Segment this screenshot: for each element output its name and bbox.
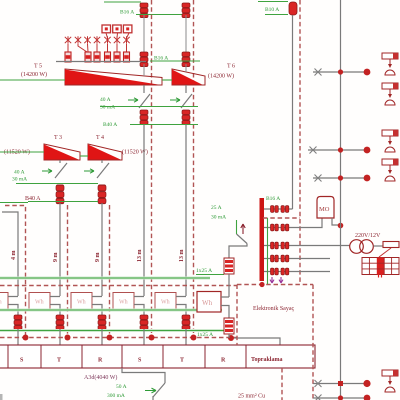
fuse B40 col3: [140, 110, 148, 125]
wire lamp1 drop: [67, 44, 69, 52]
wire column3 run: [143, 125, 145, 297]
wire dashed column0 jog: [5, 206, 26, 337]
wire lamp3 drop: [87, 44, 90, 52]
fuse branch1 pair: [271, 206, 279, 213]
svg-text:50 A: 50 A: [116, 384, 127, 390]
wire box2 stem: [116, 33, 119, 38]
svg-text:Wh: Wh: [202, 299, 213, 307]
wire lamp4 drop: [96, 44, 98, 52]
node neutral k4: [191, 335, 197, 341]
svg-text:T 5: T 5: [34, 64, 42, 70]
fuse column0 lower: [14, 315, 22, 330]
fuse column4 mid: [182, 52, 190, 67]
wire green meter link upper: [196, 274, 224, 276]
fuse branch5 pair: [271, 268, 279, 275]
fuse branch4 pair: [271, 255, 279, 262]
svg-text:1x25 A: 1x25 A: [196, 268, 212, 274]
fuse column2 lower: [98, 315, 106, 330]
fuse sorti 5: [114, 52, 120, 62]
wire dashed horizontal boundary: [0, 285, 237, 287]
wire green feed T3: [0, 151, 44, 153]
wire whbox k4 links: [176, 297, 186, 316]
busbar wedge T3 fill: [44, 145, 79, 160]
switch RCD col4 blade: [170, 85, 192, 108]
switch mark branch y383: [315, 380, 322, 387]
wire ground run: [234, 338, 280, 345]
svg-text:9 m: 9 m: [95, 253, 101, 263]
wire green row2 fuse top bus: [16, 183, 98, 185]
svg-text:B16 A: B16 A: [266, 196, 280, 202]
busbar wedge T6 outline: [172, 69, 205, 85]
transformer primary circle: [350, 240, 364, 254]
wire meter link down: [229, 244, 247, 259]
fuse B16A column4 top: [182, 3, 190, 18]
wire main feeder jog: [122, 368, 165, 383]
svg-text:Topraklama: Topraklama: [251, 357, 282, 363]
node branch y150 end: [364, 147, 371, 154]
svg-text:30 mA: 30 mA: [211, 215, 226, 221]
load group E: [382, 370, 398, 392]
node branch y383 mid: [338, 381, 343, 386]
lamp 6: [114, 36, 120, 44]
svg-text:4 m: 4 m: [11, 251, 17, 261]
wire dashed column1: [67, 205, 69, 336]
lamp 7: [123, 36, 129, 44]
node neutral k1: [65, 335, 71, 341]
fuse B40 col1: [56, 185, 64, 204]
load group B: [382, 83, 398, 105]
wire green feeder right top: [258, 1, 288, 3]
wire dashed branch neutral: [263, 217, 300, 219]
load group A: [382, 53, 398, 75]
wire branch3 to transformer: [264, 245, 350, 247]
wire branch2: [264, 218, 322, 228]
svg-text:13 m: 13 m: [137, 250, 143, 263]
wire dashed companion column3: [151, 0, 153, 292]
wire green feed T5: [0, 79, 65, 81]
component secondary fuse: [383, 242, 399, 248]
switch RCD col2 blade: [84, 160, 109, 178]
node branch y72 end: [364, 69, 371, 76]
wire box3 stem: [127, 33, 130, 38]
svg-text:40 A: 40 A: [100, 97, 111, 103]
wire right main vertical: [340, 0, 342, 400]
svg-text:40 A: 40 A: [14, 170, 25, 176]
wire green distribution bus upper: [0, 277, 210, 279]
switch mark branch y178: [315, 175, 322, 182]
wire dashed column3 lower: [151, 292, 153, 336]
wire dashed column4 lower: [193, 292, 195, 336]
svg-text:(14200 W): (14200 W): [21, 71, 47, 78]
page edge artifact: [0, 394, 3, 400]
arrow phase down a: [270, 277, 274, 283]
lamp 4: [94, 36, 100, 44]
wire branch y72: [313, 71, 367, 73]
wire green bus lower halo: [0, 329, 226, 332]
fuse meter upper: [224, 258, 234, 274]
wire secondary out: [374, 245, 384, 247]
wire green link T3-T4: [80, 155, 88, 157]
fuse B40 col4: [182, 110, 190, 125]
arrow phase down b: [279, 277, 283, 283]
wire wedge2 stub col4: [185, 64, 187, 72]
wire lamp5 drop: [107, 44, 109, 52]
junction box 1: [102, 25, 111, 33]
node MO junction: [338, 223, 344, 229]
wire column1 run: [59, 203, 61, 296]
node branch y178 mid: [338, 175, 343, 180]
load group C: [382, 130, 398, 152]
busbar wedge T5 outline: [65, 69, 162, 85]
svg-text:MO: MO: [319, 206, 330, 213]
wire lamp busbar: [56, 61, 146, 63]
svg-text:B40 A: B40 A: [103, 122, 117, 128]
load group D: [382, 159, 398, 181]
wire lamp6 drop: [116, 44, 118, 52]
svg-text:Elektronik Sayaç: Elektronik Sayaç: [253, 306, 294, 312]
wire branch y383: [313, 383, 367, 385]
wire column4 run: [185, 125, 187, 297]
wire wedge1 stub col3: [143, 64, 145, 76]
svg-text:30 mA: 30 mA: [12, 177, 27, 183]
svg-text:B10 A: B10 A: [265, 7, 279, 13]
svg-text:A3d(4040 W): A3d(4040 W): [84, 374, 117, 381]
wire cable column3 upper: [143, 15, 145, 52]
wire whbox k0 links: [8, 297, 18, 316]
meter box Wh k1: [29, 293, 50, 310]
node meter top edge: [259, 282, 264, 287]
svg-text:T: T: [180, 358, 184, 364]
svg-text:T 4: T 4: [96, 135, 104, 141]
wire branch1: [264, 208, 293, 210]
switch mark branch y72: [315, 69, 322, 76]
svg-text:25 A: 25 A: [211, 205, 222, 211]
svg-text:13 m: 13 m: [179, 250, 185, 263]
wire green top bus 2: [136, 14, 182, 16]
busbar main vertical: [260, 198, 265, 281]
fuse sorti 2: [85, 52, 91, 62]
svg-text:25 mm² Cu: 25 mm² Cu: [238, 394, 265, 400]
wire green busbar neutral: [267, 218, 269, 284]
svg-text:9 m: 9 m: [53, 253, 59, 263]
fuse sorti 3: [94, 52, 100, 62]
wire green feeder right bus 2: [265, 14, 288, 16]
wire branch y178: [313, 177, 367, 179]
wire MO right leg: [332, 218, 338, 225]
node neutral k2: [107, 335, 113, 341]
enclosure dashed meter box top: [237, 284, 313, 286]
meter box Wh k0: [0, 293, 8, 310]
node neutral k3: [149, 335, 155, 341]
switch main arrow: [145, 388, 156, 393]
switch meter RCD trip arrow: [241, 224, 245, 234]
node branch y178 end: [364, 175, 371, 182]
svg-text:R: R: [221, 358, 226, 364]
wire green meter drop: [236, 220, 238, 234]
busbar wedge T6 fill: [172, 70, 202, 85]
wire main feeder tail: [152, 396, 154, 400]
junction box 3: [123, 25, 131, 33]
wire green distribution bus upper halo: [0, 277, 210, 280]
wire green row2 fuse bottom bus: [28, 201, 98, 203]
switch mark branch y150: [310, 147, 317, 154]
wire column0 jog: [2, 212, 18, 296]
wire branch y398: [313, 397, 367, 399]
meter kWh box: [197, 292, 221, 313]
wire dashed neutral bottom bus: [0, 337, 237, 339]
svg-text:T: T: [57, 358, 61, 364]
node branch y150 mid: [338, 147, 343, 152]
wire green switch bus row1: [100, 106, 198, 108]
wire whbox k1 links: [50, 297, 60, 316]
node branch y398 mid: [338, 395, 343, 400]
svg-text:B16 A: B16 A: [154, 56, 168, 62]
meter box Wh k4: [155, 293, 176, 310]
lamp 5: [104, 36, 110, 44]
gas meter MO box: [317, 197, 334, 219]
wire green bus below meters: [0, 309, 222, 311]
switch RCD col3 blade: [128, 85, 150, 108]
node branch y72 mid: [338, 69, 343, 74]
wire dashed companion column4: [193, 0, 195, 292]
wire lamp2 diagonal drop: [78, 44, 87, 52]
lamp 2: [75, 36, 81, 44]
switch RCD col1 blade: [42, 160, 67, 178]
meter box Wh k3: [113, 293, 134, 310]
fuse meter lower: [224, 318, 234, 334]
lamp 1: [65, 36, 71, 44]
lamp 3: [84, 36, 90, 44]
fuse column4 lower: [182, 315, 190, 330]
wire branch4: [264, 258, 330, 260]
node branch y398 end: [364, 395, 371, 400]
svg-text:R: R: [98, 358, 103, 364]
busbar wedge T4 outline: [88, 144, 122, 160]
fuse column1 lower: [56, 315, 64, 330]
wire secondary diagonal: [379, 248, 391, 257]
enclosure dashed meter box left: [236, 285, 238, 346]
busbar wedge T4 fill: [88, 145, 121, 160]
wire green bus below meters halo: [0, 309, 222, 312]
node neutral k0: [23, 335, 29, 341]
busbar wedge T5 fill: [65, 70, 158, 85]
enclosure dashed meter box right: [312, 285, 314, 400]
wire meter supply column: [292, 15, 294, 209]
fuse branch3 pair: [271, 242, 279, 249]
busbar wedge T3 outline: [44, 144, 80, 160]
wire lamp7 drop: [126, 44, 128, 52]
wire green gap link: [162, 79, 172, 81]
fuse sorti 6: [124, 52, 130, 62]
node branch y383 end: [363, 380, 370, 387]
wire column2 run: [101, 203, 103, 296]
wire green link to T6: [150, 60, 200, 62]
switch meter RCD blade: [237, 234, 248, 244]
fuse sorti 4: [105, 52, 111, 62]
wire dashed column2: [109, 205, 111, 336]
wire neutral dashed main: [299, 0, 301, 284]
wire whbox k3 links: [134, 297, 144, 316]
svg-text:B16 A: B16 A: [120, 10, 134, 16]
fuse sorti 1: [65, 52, 71, 62]
wire branch5: [264, 271, 330, 273]
fuse B40 col2: [98, 185, 106, 204]
wire box1 stem: [106, 33, 108, 38]
svg-text:T 6: T 6: [227, 64, 235, 70]
wire meter box links: [221, 297, 229, 318]
fuse column3 lower: [140, 315, 148, 330]
fuse B16A column3 top: [140, 3, 148, 18]
fuse column3 mid: [140, 52, 148, 67]
node meter output: [228, 335, 234, 341]
wire cable column4 upper: [185, 15, 187, 52]
svg-text:220V/12V: 220V/12V: [355, 233, 381, 239]
svg-text:T 3: T 3: [54, 135, 62, 141]
junction box 2: [113, 25, 122, 33]
wire fuse drops to letter row: [18, 329, 186, 345]
wire green top bus 1: [104, 1, 141, 3]
switch mark branch y398: [315, 395, 322, 400]
svg-text:(14200 W): (14200 W): [208, 73, 234, 80]
terminal block grid: [362, 258, 399, 278]
wire green fuse bus row1: [130, 124, 198, 126]
fuse top of meter column: [289, 2, 297, 15]
wire green bus lower: [0, 330, 226, 332]
wire meter mid drop: [228, 274, 230, 297]
switch main blade: [153, 383, 165, 397]
meter box Wh k2: [71, 293, 92, 310]
svg-text:300 mA: 300 mA: [107, 393, 125, 399]
wire branch y150: [308, 149, 367, 151]
wire meter out: [228, 334, 230, 338]
svg-text:30 mA: 30 mA: [100, 105, 115, 111]
wire whbox k2 links: [92, 297, 102, 316]
transformer secondary circle: [360, 240, 374, 254]
wire green left edge feed: [0, 202, 28, 204]
LETTER ROW phase boxes: [0, 345, 315, 368]
fuse branch2 pair: [271, 224, 279, 231]
wire ground dashed below: [281, 368, 283, 400]
